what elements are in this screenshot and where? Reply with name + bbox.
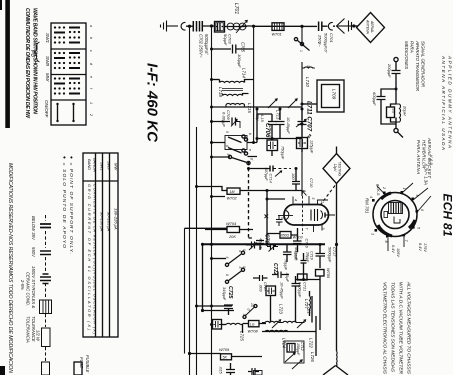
svg-text:b: b — [89, 37, 93, 39]
svg-text:5: 5 — [225, 131, 229, 133]
svg-text:L723: L723 — [279, 304, 284, 314]
svg-text:C705: C705 — [241, 42, 246, 53]
wire bus E — [196, 127, 198, 375]
svg-text:550V: 550V — [31, 247, 36, 258]
svg-text:20K: 20K — [228, 234, 236, 239]
svg-text:ECH 81: ECH 81 — [441, 194, 453, 237]
resistor W703 650ohm — [280, 232, 291, 239]
svg-text:2: 2 — [89, 113, 93, 116]
capacitor C706 — [256, 109, 258, 120]
svg-text:C716: C716 — [305, 239, 310, 249]
svg-text:W701: W701 — [272, 32, 282, 37]
band / grid-current table — [83, 153, 118, 337]
wire junctions — [188, 48, 338, 356]
svg-text:0: 0 — [242, 266, 246, 268]
svg-text:SW1: SW1 — [45, 33, 50, 43]
wire bus A — [189, 26, 191, 375]
svg-text:600μμF: 600μμF — [372, 92, 377, 106]
coil L710 — [302, 67, 315, 68]
antenna mast — [337, 19, 353, 34]
svg-text:5: 5 — [280, 217, 284, 219]
capacitor trimmer — [252, 242, 255, 249]
svg-text:L711 C707 ∿: L711 C707 ∿ — [306, 101, 313, 139]
socket key arcs — [378, 225, 392, 236]
resistor W705 — [316, 270, 325, 277]
coil L724 — [262, 331, 316, 333]
wire — [212, 106, 303, 108]
capacitor C722 .01uF — [272, 263, 290, 283]
svg-text:20μH: 20μH — [403, 105, 408, 116]
svg-text:WITH A D.C.VACUUM TUBE VOLTMET: WITH A D.C.VACUUM TUBE VOLTMETER — [398, 282, 404, 375]
svg-text:ANTENA: ANTENA — [366, 19, 370, 34]
svg-text:1: 1 — [299, 50, 303, 52]
wire grid feed — [266, 191, 268, 245]
wire bus F — [253, 26, 255, 143]
capacitor C703 trimmer — [215, 22, 225, 33]
svg-text:125μμF: 125μμF — [310, 140, 315, 154]
fuse symbol — [74, 362, 82, 375]
wire — [185, 187, 228, 229]
svg-text:RM 701: RM 701 — [365, 198, 370, 214]
adjustment x mark — [265, 215, 269, 219]
svg-text:TOLERANCE: TOLERANCE — [31, 316, 36, 342]
wire — [197, 305, 233, 307]
svg-text:2: 2 — [382, 186, 386, 189]
svg-text:4: 4 — [294, 199, 298, 201]
svg-text:3: 3 — [242, 314, 246, 316]
capacitor C727 .003 — [266, 286, 276, 296]
svg-text:0.4V: 0.4V — [391, 245, 395, 253]
svg-text:7: 7 — [320, 201, 324, 203]
svg-text:L727: L727 — [304, 299, 309, 309]
IF transformer C712 150uuF — [284, 341, 304, 363]
coil L726 — [336, 351, 339, 367]
svg-text:6: 6 — [420, 209, 424, 211]
svg-text:I-F: 460 KC: I-F: 460 KC — [144, 63, 161, 143]
svg-text:SIGNAL GENERADOR: SIGNAL GENERADOR — [421, 41, 426, 88]
coil L714 — [212, 79, 220, 81]
svg-text:105V: 105V — [396, 248, 400, 257]
capacitor C707 trimmer 10-45uuF — [301, 109, 303, 120]
svg-text:L726: L726 — [310, 352, 315, 362]
band switch wafer contacts — [225, 136, 247, 150]
svg-text:FUSIBLE: FUSIBLE — [85, 355, 90, 373]
svg-text:WAVE BAND SWITCH SHOWN IN HW P: WAVE BAND SWITCH SHOWN IN HW POSITION — [32, 8, 38, 114]
capacitor .015 — [226, 370, 235, 373]
svg-text:BANDA: BANDA — [93, 158, 98, 172]
svg-text:650Ω: 650Ω — [281, 234, 290, 238]
marker diamond bottom — [323, 366, 348, 375]
svg-text:e: e — [248, 149, 252, 151]
resistor W709 5K — [219, 347, 230, 360]
svg-text:ON/OFF: ON/OFF — [44, 100, 49, 119]
svg-text:5: 5 — [226, 154, 230, 156]
capacitor C701 — [302, 25, 317, 27]
wire AVC bus (thick) — [203, 243, 326, 245]
svg-text:e: e — [89, 76, 93, 78]
capacitor boxed styroflex — [212, 324, 213, 326]
capacitor C702 — [193, 21, 202, 32]
svg-text:1500V STYROFLEX &: 1500V STYROFLEX & — [31, 266, 36, 308]
svg-text:LG: LG — [250, 323, 255, 327]
svg-text:6: 6 — [225, 274, 229, 276]
svg-text:C702 250V~: C702 250V~ — [199, 34, 204, 58]
svg-text:MW: MW — [45, 73, 50, 82]
svg-text:250V~: 250V~ — [318, 34, 323, 47]
svg-text:W709: W709 — [219, 347, 230, 352]
svg-text:TOLERANCIA: TOLERANCIA — [26, 316, 31, 343]
wire AVC dashed — [249, 162, 254, 238]
label: L711 C707 — [306, 101, 313, 139]
svg-text:L701: L701 — [233, 3, 239, 14]
dummy antenna network — [394, 57, 398, 61]
svg-text:APARATO TRANSMISOR: APARATO TRANSMISOR — [415, 40, 420, 92]
capacitor C719 20uuF — [301, 261, 307, 264]
svg-text:g4,K,S: g4,K,S — [376, 184, 380, 196]
capacitor C720 70uuF — [283, 252, 292, 255]
svg-text:3: 3 — [321, 228, 325, 230]
socket inner electrode drawing — [389, 203, 403, 214]
wire bus D — [184, 228, 186, 353]
svg-text:MW: MW — [114, 163, 119, 171]
svg-text:SWII: SWII — [107, 161, 112, 171]
svg-text:5K: 5K — [223, 356, 228, 360]
capacitor 600uuF branch — [381, 89, 396, 96]
resistor W701 — [272, 23, 284, 31]
note: wave band switch position — [7, 8, 161, 373]
svg-text:BAND: BAND — [87, 159, 92, 170]
svg-text:6400μμF: 6400μμF — [298, 282, 303, 298]
svg-text:200μμF: 200μμF — [387, 63, 392, 78]
wave band switch contact table — [51, 23, 86, 125]
svg-text:PARA ANTENA: PARA ANTENA — [416, 140, 421, 174]
svg-text:70μμF: 70μμF — [284, 259, 289, 271]
labels: L723 L721 L724 L722 — [279, 304, 314, 348]
svg-text:2: 2 — [317, 41, 321, 44]
svg-text:GRID CURRENT OF ECH 81 OSCILLA: GRID CURRENT OF ECH 81 OSCILLATOR (X) — [87, 184, 92, 331]
svg-text:507μμF: 507μμF — [264, 168, 269, 182]
svg-text:5000μμF: 5000μμF — [328, 247, 333, 263]
svg-text:d: d — [89, 63, 93, 66]
socket pin dots — [372, 191, 418, 238]
svg-text:BELOW 35V: BELOW 35V — [31, 216, 36, 241]
tube triode grid — [286, 211, 289, 220]
tube U1 ECH81 envelope — [284, 205, 329, 226]
label: tube type ECH 81 — [441, 194, 453, 237]
svg-text:C706: C706 — [264, 123, 270, 138]
svg-text:750μμF: 750μμF — [281, 146, 286, 160]
switch wafer dot patterns — [54, 26, 80, 94]
svg-text:1: 1 — [402, 188, 406, 190]
coil 20uH with resistor 2ohm — [395, 89, 397, 104]
svg-text:8: 8 — [384, 241, 388, 243]
coil L701 — [227, 23, 234, 30]
svg-text:L714: L714 — [242, 68, 247, 78]
svg-text:PARA: PARA — [410, 41, 415, 53]
coil L715 — [226, 103, 244, 107]
all voltages note — [382, 281, 412, 375]
wire AVC dashed horizontal — [273, 168, 291, 170]
svg-text:10-45μμF: 10-45μμF — [280, 282, 285, 299]
capacitor C717 5000uuF — [316, 254, 326, 257]
capacitor C711 125uuF — [297, 138, 308, 149]
svg-text:12μV: 12μV — [333, 164, 337, 173]
svg-text:.003: .003 — [259, 284, 264, 292]
capacitor C718 — [260, 275, 263, 281]
capacitor C710 100 — [292, 182, 300, 185]
svg-text:APPLIED DUMMY ANTENNA: APPLIED DUMMY ANTENNA — [448, 55, 453, 148]
svg-text:.015: .015 — [219, 366, 224, 374]
svg-text:175V: 175V — [423, 243, 427, 252]
svg-text:100: 100 — [291, 173, 296, 180]
coil L709 shielded box — [317, 80, 344, 112]
svg-text:L718: L718 — [218, 87, 223, 97]
resistor W702 1M — [227, 188, 240, 194]
svg-text:L715: L715 — [247, 103, 252, 113]
svg-text:CERAMIC COND.: CERAMIC COND. — [26, 272, 31, 306]
aerial plug socket — [181, 22, 185, 30]
coil L713 adjustable cores — [268, 99, 277, 108]
svg-text:5: 5 — [417, 227, 421, 229]
svg-text:.01μF: .01μF — [285, 272, 290, 283]
svg-text:TESTING: TESTING — [338, 162, 342, 177]
point of support legend — [61, 156, 74, 254]
wire bus B — [211, 26, 213, 375]
signal generator note — [404, 40, 453, 185]
svg-text:6.3V~ 1.3A: 6.3V~ 1.3A — [424, 164, 429, 185]
resistor W706 — [298, 274, 308, 280]
svg-text:5: 5 — [225, 257, 229, 259]
switch contact 1a — [297, 40, 310, 51]
svg-text:20μμF: 20μμF — [306, 251, 310, 263]
capacitor trimmer branch — [279, 109, 281, 120]
svg-text:7: 7 — [404, 240, 408, 243]
svg-text:TODAS LAS TENSIONES SON MEDIDA: TODAS LAS TENSIONES SON MEDIDAS — [390, 282, 396, 373]
svg-text:SWII: SWII — [45, 56, 50, 67]
legend: capacitor voltage styles — [40, 215, 52, 375]
svg-text:1M: 1M — [230, 190, 235, 194]
svg-text:W704: W704 — [226, 221, 237, 226]
svg-text:MODIFICATIONS RESERVED-NOS RES: MODIFICATIONS RESERVED-NOS RESERVAMOS TO… — [7, 163, 13, 373]
svg-text:W702: W702 — [227, 196, 238, 201]
svg-text:5000μμF,6˘: 5000μμF,6˘ — [324, 33, 329, 54]
svg-text:6-30μμF: 6-30μμF — [222, 112, 227, 127]
svg-text:● = POINT OF SUPPORT ONLY.: ● = POINT OF SUPPORT ONLY. — [68, 156, 74, 254]
socket pin leads — [377, 183, 431, 251]
svg-text:L709: L709 — [332, 89, 337, 100]
coils L723 L721 with cores — [262, 321, 305, 322]
marker diamond TESTING 12uV — [323, 154, 350, 184]
svg-text:MEDICIONES: MEDICIONES — [404, 41, 409, 69]
svg-text:0: 0 — [242, 249, 246, 251]
switch ON/OFF contacts — [58, 104, 74, 121]
tube control grid — [302, 196, 304, 234]
svg-text:96–156 μA: 96–156 μA — [100, 212, 105, 232]
svg-text:5000μμF,6˘: 5000μμF,6˘ — [204, 34, 209, 55]
coil L725 — [226, 323, 240, 324]
capacitor C725 345uuF — [224, 305, 233, 309]
svg-text:a: a — [89, 25, 93, 27]
PU brace — [35, 42, 40, 62]
svg-text:L722: L722 — [309, 338, 314, 348]
svg-text:C720: C720 — [294, 251, 299, 261]
svg-text:7: 7 — [305, 228, 309, 230]
svg-text:1: 1 — [89, 102, 93, 104]
wire — [257, 138, 302, 140]
capacitor C721 6400uuF — [292, 284, 301, 287]
tube heptode electrodes — [311, 209, 318, 221]
svg-text:SW1: SW1 — [100, 162, 105, 171]
svg-text:C722: C722 — [272, 263, 278, 275]
svg-text:6.4V: 6.4V — [418, 243, 422, 251]
svg-text:10: 10 — [250, 303, 254, 307]
svg-text:5: 5 — [238, 267, 242, 269]
svg-text:3: 3 — [371, 233, 375, 235]
svg-text:C701: C701 — [329, 33, 334, 43]
svg-text:ANTENA ARTIFICIAL USADA: ANTENA ARTIFICIAL USADA — [441, 55, 446, 150]
scan edge mark — [0, 0, 10, 375]
table side labels — [29, 25, 93, 119]
svg-text:d: d — [247, 309, 251, 311]
tube socket RM 701 base diagram — [373, 193, 417, 237]
capacitor C715 45uuF trimmer — [271, 244, 274, 251]
svg-text:90–205 μA: 90–205 μA — [107, 212, 112, 232]
svg-text:● = SOLO PUNTO DE APOYO: ● = SOLO PUNTO DE APOYO — [61, 156, 67, 248]
node C702/bus B junction — [210, 24, 213, 27]
svg-text:50μμF: 50μμF — [223, 34, 228, 46]
svg-text:c: c — [89, 50, 93, 52]
svg-text:2-5%: 2-5% — [20, 279, 25, 290]
svg-text:138–226 μA: 138–226 μA — [114, 208, 119, 230]
svg-text:C710: C710 — [309, 178, 314, 188]
svg-text:CONMUTADOR DE ONDAS EN POSICIO: CONMUTADOR DE ONDAS EN POSICION DE HW — [24, 8, 30, 119]
svg-text:W705: W705 — [326, 268, 331, 279]
capacitor C705 100uuF — [212, 48, 232, 50]
svg-text:L725: L725 — [240, 331, 245, 341]
tube pin leads — [293, 196, 335, 232]
svg-text:ALL VOLTAGES MEASURED TO CHASS: ALL VOLTAGES MEASURED TO CHASSIS — [406, 281, 412, 375]
svg-text:L713: L713 — [276, 110, 281, 120]
svg-text:b: b — [248, 133, 252, 135]
svg-text:AERIAL: AERIAL — [370, 20, 374, 33]
svg-text:10-45μμF: 10-45μμF — [286, 117, 291, 134]
svg-text:VOLTIMETRO ELECTRONICO AL CHAS: VOLTIMETRO ELECTRONICO AL CHASIS — [382, 282, 388, 375]
svg-text:45μμF: 45μμF — [259, 238, 264, 250]
svg-text:1/2 W: 1/2 W — [36, 330, 41, 342]
svg-text:5: 5 — [311, 198, 315, 200]
pin numbers 1-9 — [369, 186, 424, 243]
capacitor C714 507uuF — [249, 168, 270, 170]
ground — [161, 21, 179, 32]
wire — [271, 293, 313, 323]
capacitor 200uuF — [392, 71, 401, 74]
marker diamond AERIAL/ANTENA — [357, 13, 385, 43]
switch contact 10d3 — [245, 307, 255, 316]
wire — [316, 284, 320, 356]
switch contacts 4a/5a — [228, 254, 242, 265]
transformer core — [222, 89, 243, 91]
capacitor C716 500uuF — [293, 241, 302, 244]
resistor W708 — [249, 321, 260, 327]
svg-text:PU: PU — [29, 50, 35, 57]
wire test line — [336, 184, 338, 352]
svg-text:f: f — [89, 88, 93, 90]
coil L718 — [223, 94, 243, 95]
coil L727 — [304, 299, 309, 309]
svg-text:345μμF: 345μμF — [222, 287, 227, 301]
wire bus G — [301, 26, 303, 196]
svg-text:150μμF: 150μμF — [296, 343, 300, 356]
svg-text:6ʹ: 6ʹ — [250, 158, 254, 161]
svg-text:CORRIENTE DE LA REJILLA (G1)(V: CORRIENTE DE LA REJILLA (G1)(VG)DEL OSCI… — [93, 184, 98, 335]
svg-text:6: 6 — [225, 145, 229, 147]
svg-text:2Ω: 2Ω — [392, 108, 396, 114]
svg-text:100μμF: 100μμF — [237, 54, 242, 68]
svg-text:L710: L710 — [305, 77, 310, 87]
capacitor C713 — [276, 215, 283, 226]
capacitor C709 trimmer 6-30uuF — [210, 120, 213, 123]
capacitor C712 750uuF — [267, 140, 278, 151]
resistor W704 20K — [226, 221, 237, 239]
svg-text:4: 4 — [238, 250, 242, 252]
svg-text:W708: W708 — [248, 329, 259, 334]
antenna plug — [328, 22, 332, 30]
